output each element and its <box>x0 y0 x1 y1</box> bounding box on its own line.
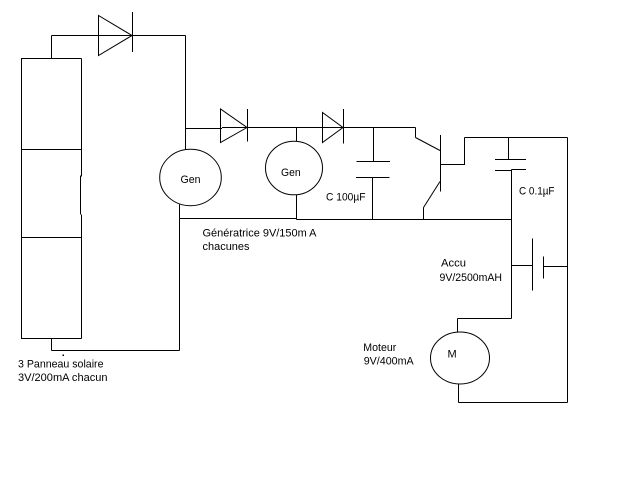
stray dot <box>63 355 65 357</box>
transistor Q1 emitter diagonal <box>424 182 441 208</box>
capacitor C2 bottom lead / mid vertical <box>511 170 513 319</box>
svg-text:M: M <box>448 349 457 361</box>
generator G1 circle <box>160 149 222 205</box>
motor M1 circle <box>431 332 490 384</box>
svg-text:Moteur: Moteur <box>363 342 396 354</box>
svg-text:9V/400mA: 9V/400mA <box>364 356 415 368</box>
capacitor C1 bottom plate <box>356 177 390 179</box>
svg-text:Gen: Gen <box>281 167 301 179</box>
wire Gen2 top lead <box>296 128 298 142</box>
battery B1 short plate <box>543 257 545 279</box>
capacitor C2 bottom plate <box>495 170 512 172</box>
svg-text:Accu: Accu <box>441 258 466 270</box>
svg-text:Génératrice 9V/150m A: Génératrice 9V/150m A <box>203 228 318 240</box>
diode D2 cathode bar <box>247 109 249 142</box>
wire Gen2 bottom lead <box>296 195 298 220</box>
battery B1 right wire <box>544 266 568 268</box>
svg-text:3V/200mA chacun: 3V/200mA chacun <box>18 372 108 384</box>
wire bottom right horizontal <box>459 402 568 404</box>
wire bottom horizontal return <box>52 350 180 352</box>
transistor Q1 collector corner <box>415 128 417 138</box>
wire Gen1 bottom lead + left long vertical <box>179 205 181 351</box>
capacitor C1 100uF top lead <box>373 128 375 162</box>
battery B1 long plate <box>532 239 534 291</box>
diode D1 triangle <box>99 16 133 56</box>
diode D3 triangle <box>323 113 344 143</box>
transistor Q1 base lead <box>441 138 465 165</box>
wire right vertical to Gen1 <box>185 36 187 150</box>
wire motor top horizontal <box>458 318 512 320</box>
svg-text:9V/2500mAH: 9V/2500mAH <box>440 272 503 284</box>
diode D2 triangle <box>221 109 248 143</box>
svg-text:C 0.1µF: C 0.1µF <box>519 186 555 198</box>
svg-text:3 Panneau solaire: 3 Panneau solaire <box>18 359 104 371</box>
wire bottom bus <box>180 218 297 220</box>
wire motor top lead <box>457 319 459 333</box>
transistor Q1 collector diagonal <box>416 138 441 151</box>
solar panel PV1 (3-cell rectangle) <box>22 59 82 339</box>
wire motor bottom lead <box>458 384 460 403</box>
svg-text:C 100µF: C 100µF <box>326 192 366 204</box>
wire top horizontal <box>52 35 186 37</box>
transistor Q1 base bar <box>440 135 442 192</box>
wire panel top lead <box>51 36 53 59</box>
capacitor C1 top plate <box>357 161 391 163</box>
capacitor C2 top plate <box>495 159 526 161</box>
diode D3 cathode bar <box>343 109 345 144</box>
svg-text:Gen: Gen <box>181 174 201 186</box>
capacitor C2 0.1uF top lead <box>508 138 510 160</box>
generator G2 circle <box>266 141 323 195</box>
battery B1 left wire <box>512 265 533 267</box>
wire second horizontal <box>186 128 223 130</box>
diode D1 cathode bar <box>132 12 134 52</box>
wire panel bottom lead <box>51 339 53 351</box>
wire base feed horizontal <box>465 137 568 139</box>
wire right vertical <box>567 138 569 403</box>
svg-text:chacunes: chacunes <box>203 241 250 253</box>
transistor Q1 emitter lead <box>423 208 425 220</box>
capacitor C1 bottom lead <box>372 178 374 220</box>
